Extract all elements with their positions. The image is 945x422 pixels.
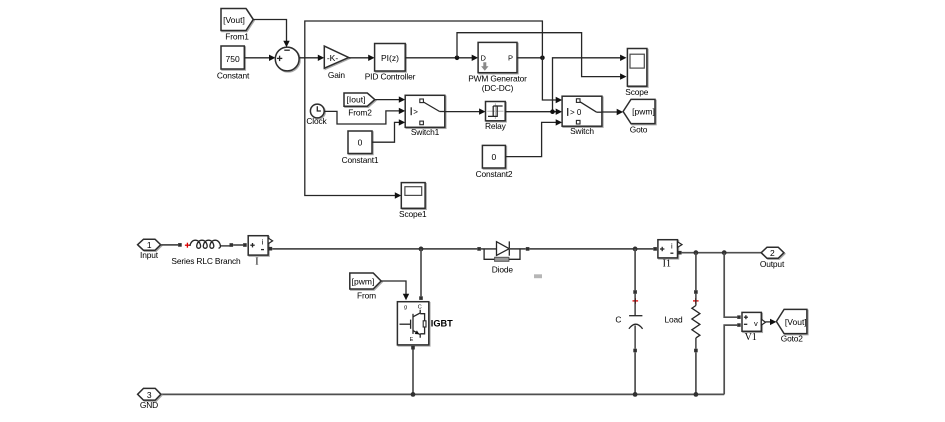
svg-text:E: E	[410, 337, 414, 343]
svg-text:[Vout]: [Vout]	[223, 15, 245, 25]
Goto tag Goto2 [Vout]	[776, 309, 807, 333]
wire P node down to Switch top input	[542, 58, 556, 100]
svg-text:C: C	[615, 315, 621, 325]
wire From2 to Switch1 input 1	[375, 99, 399, 101]
svg-text:Switch: Switch	[570, 126, 594, 136]
svg-text:Constant: Constant	[217, 71, 250, 81]
annotation hatch mark	[535, 274, 541, 278]
wire PWM P output	[517, 57, 542, 59]
constant Constant2 (0)	[482, 145, 505, 168]
svg-text:[Vout]: [Vout]	[785, 317, 807, 327]
wire Relay to Switch input 2	[505, 111, 556, 113]
svg-text:Goto: Goto	[630, 124, 648, 134]
constant Constant (750)	[221, 46, 244, 69]
gray duty arrow icon	[481, 62, 488, 71]
svg-text:Clock: Clock	[306, 116, 327, 126]
svg-text:-K-: -K-	[327, 53, 339, 63]
svg-text:Constant1: Constant1	[342, 155, 379, 165]
node: junction on PID output	[455, 56, 460, 61]
svg-text:From: From	[357, 291, 376, 301]
sum junction (+/-)	[275, 47, 299, 71]
svg-text:D: D	[481, 53, 487, 62]
From tag From2 [Iout]	[344, 93, 375, 106]
wire From1 to Sum top	[253, 20, 286, 42]
svg-text:I: I	[255, 256, 258, 267]
svg-text:v: v	[754, 319, 758, 328]
wire Switch to Goto	[602, 111, 617, 113]
svg-text:Scope: Scope	[625, 87, 648, 97]
svg-text:GND: GND	[140, 400, 158, 410]
wire Diode to I1	[529, 248, 653, 250]
svg-text:g: g	[404, 305, 407, 311]
wire PID to PWM Generator	[405, 57, 472, 59]
svg-text:Series RLC Branch: Series RLC Branch	[171, 256, 241, 266]
wire From to IGBT gate	[381, 281, 406, 294]
wire P-output loop to Switch input 1	[305, 21, 543, 196]
wire Gain to PID	[349, 57, 369, 59]
PWM Generator (DC-DC) block	[478, 42, 517, 72]
From tag From1 [Vout]	[221, 9, 253, 31]
svg-text:Output: Output	[760, 259, 785, 269]
wire PID output branch to Scope input 2	[457, 33, 620, 77]
wire collector drop from rail to IGBT	[420, 249, 422, 296]
svg-text:Goto2: Goto2	[781, 334, 804, 344]
constant Constant1 (0)	[348, 131, 372, 154]
scope Scope1	[401, 183, 425, 209]
svg-text:PWM Generator: PWM Generator	[468, 74, 527, 84]
svg-text:1: 1	[147, 240, 152, 250]
Series RLC Branch (inductor)	[185, 244, 190, 246]
gain Gain (-K-)	[324, 46, 348, 68]
resistor Load branch	[695, 253, 697, 291]
PID controller block PI(z)	[375, 44, 406, 72]
svg-text:(DC-DC): (DC-DC)	[482, 83, 514, 93]
svg-text:[Iout]: [Iout]	[347, 95, 366, 105]
svg-text:PI(z): PI(z)	[381, 53, 399, 63]
ground rail wire	[161, 393, 725, 395]
svg-text:Load: Load	[664, 315, 683, 325]
svg-text:Switch1: Switch1	[411, 127, 440, 137]
svg-text:[pwm]: [pwm]	[352, 276, 375, 286]
scope Scope	[627, 49, 647, 87]
node: junction Relay output	[550, 109, 555, 114]
svg-text:750: 750	[226, 54, 240, 64]
node: junction IGBT collector tap	[419, 247, 424, 252]
svg-text:From2: From2	[348, 108, 372, 118]
wire I to Diode (top rail)	[272, 248, 477, 250]
wire Relay output branch to Scope input 1	[553, 58, 621, 112]
node: load junction	[694, 392, 699, 397]
voltage measurement V1 branch	[724, 253, 737, 318]
svg-text:From1: From1	[225, 32, 249, 42]
svg-text:P: P	[508, 53, 513, 62]
svg-text:>: >	[413, 107, 418, 116]
port 3 GND	[138, 388, 161, 400]
svg-text:3: 3	[147, 390, 152, 400]
node: junction capacitor tap	[633, 247, 638, 252]
svg-text:Relay: Relay	[485, 121, 507, 131]
wire V1 to Goto2	[766, 321, 771, 323]
wire Clock to Switch1 input 2	[324, 111, 399, 124]
wire Switch1 to Relay	[445, 111, 480, 113]
wire IGBT emitter to ground rail	[411, 346, 415, 350]
svg-text:> 0: > 0	[570, 108, 582, 117]
svg-text:[pwm]: [pwm]	[632, 107, 655, 117]
svg-text:V1: V1	[745, 332, 757, 343]
node: capacitor junction	[633, 392, 638, 397]
svg-text:Gain: Gain	[328, 70, 346, 80]
svg-text:Diode: Diode	[492, 265, 514, 275]
svg-text:0: 0	[492, 152, 497, 162]
svg-text:Input: Input	[140, 250, 159, 260]
wire Input to Series RLC Branch	[161, 244, 178, 246]
svg-text:Constant2: Constant2	[476, 169, 513, 179]
port 1 Input	[138, 239, 161, 250]
relay Relay	[486, 102, 506, 121]
wire Constant2 to Switch input 3	[505, 122, 556, 156]
svg-text:2: 2	[770, 248, 775, 258]
svg-text:0: 0	[358, 138, 363, 148]
current measurement I	[248, 236, 268, 255]
svg-text:Scope1: Scope1	[399, 209, 427, 219]
transistor IGBT	[397, 302, 428, 345]
switch Switch	[562, 96, 602, 126]
voltage measurement V1	[742, 312, 761, 331]
switch Switch1	[405, 95, 445, 127]
wire Sum to Gain	[299, 57, 318, 59]
From tag From [pwm]	[350, 273, 381, 289]
svg-text:PID Controller: PID Controller	[365, 72, 416, 82]
svg-text:I1: I1	[663, 258, 671, 269]
node: junction P output	[540, 56, 545, 61]
clock Clock	[310, 104, 324, 118]
wire Series RLC Branch to I	[233, 244, 243, 246]
port 2 Output	[761, 247, 784, 258]
wire I1 to Output (rail)	[682, 252, 762, 254]
wire Constant1 to Switch1 input 3	[372, 122, 399, 142]
node: junction V1 tap	[722, 250, 727, 255]
svg-text:IGBT: IGBT	[431, 319, 453, 329]
current measurement I1	[658, 240, 678, 258]
svg-text:C: C	[418, 305, 422, 311]
diode Diode	[477, 247, 481, 251]
capacitor C branch	[634, 249, 636, 290]
Goto tag [pwm]	[623, 99, 655, 123]
node: junction Load tap	[694, 250, 699, 255]
node: IGBT emitter junction	[411, 392, 416, 397]
wire Constant to Sum	[244, 57, 269, 59]
